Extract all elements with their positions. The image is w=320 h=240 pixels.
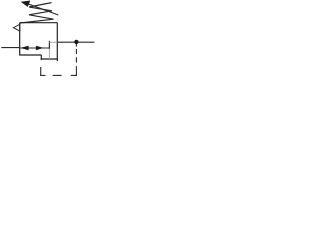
internal passage vertical (faint lower part) bbox=[48, 49, 50, 59]
internal flow line bbox=[20, 47, 50, 49]
pilot dashed line: left corner L dash vertical bbox=[40, 67, 42, 76]
junction node dot bbox=[74, 40, 78, 44]
flow arrowhead pointing left bbox=[20, 46, 28, 51]
internal passage vertical (dark upper part) bbox=[48, 41, 50, 49]
pilot dashed line: right vertical dash 3 bbox=[75, 57, 77, 62]
pilot dashed line: right vertical dash 1 bbox=[75, 44, 77, 47]
adjustment arrow shaft bbox=[25, 3, 59, 15]
valve body top edge bbox=[20, 22, 58, 24]
inlet port line bbox=[1, 47, 19, 49]
valve body left edge bbox=[19, 23, 21, 56]
pilot dashed line: left corner L dash horizontal bbox=[40, 74, 45, 76]
pilot dashed line: right corner L dash vertical bbox=[75, 66, 77, 76]
diaphragm notch left vertical bbox=[40, 55, 42, 60]
outlet port line bbox=[57, 41, 94, 43]
outlet connector (faint) bbox=[49, 41, 57, 43]
relief vent triangle bbox=[13, 24, 19, 31]
pilot dashed line: bottom middle dash bbox=[53, 74, 62, 76]
adjustment arrow head bbox=[21, 1, 30, 7]
valve body right edge (extends down as exhaust) bbox=[56, 23, 58, 61]
pilot dashed line: right vertical dash 2 bbox=[75, 49, 77, 54]
diaphragm notch bottom edge bbox=[41, 58, 58, 60]
spring (adjustable) zigzag bbox=[20, 3, 53, 23]
pilot dashed line: right corner L dash horizontal bbox=[71, 74, 77, 76]
valve body bottom edge left part bbox=[20, 54, 42, 56]
flow arrowhead pointing right bbox=[36, 46, 44, 51]
